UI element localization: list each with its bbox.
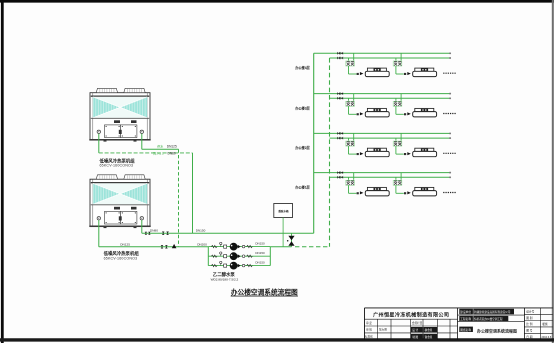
branch 3 FCU 2 strainer <box>404 153 406 155</box>
branch 1 supply pipe <box>314 52 450 54</box>
branch 3 fan coil unit 1 body <box>367 148 386 151</box>
chiller AC-1 base rail <box>89 139 150 141</box>
branch 2 return pipe <box>330 97 450 99</box>
return main check valve <box>172 244 177 248</box>
main butterfly valve on riser connection <box>288 236 294 240</box>
branch 3 FCU 1 connecting pipe <box>348 146 350 154</box>
branch 2 FCU 1 supply drop pipe <box>353 94 355 101</box>
branch 2 fan coil unit 1 body <box>367 108 386 111</box>
svg-text:DN80: DN80 <box>150 229 158 233</box>
svg-text:暖施: 暖施 <box>542 322 548 326</box>
chiller AC-2 water ports <box>97 217 100 220</box>
svg-text:65KCV-160CONO3: 65KCV-160CONO3 <box>100 164 134 168</box>
svg-text:DN150: DN150 <box>255 241 265 245</box>
svg-text:柳金星: 柳金星 <box>425 328 433 332</box>
svg-text:制 图: 制 图 <box>412 335 418 339</box>
chiller AC-2 condenser coil section <box>91 182 149 184</box>
svg-text:广州恒星冷冻机械制造有限公司: 广州恒星冷冻机械制造有限公司 <box>373 312 449 319</box>
svg-text:办公楼空调系统流程图: 办公楼空调系统流程图 <box>231 288 298 297</box>
branch 4 supply valves <box>337 171 340 174</box>
branch 1 FCU 1 supply drop pipe <box>353 53 355 60</box>
pump P1 discharge gauge <box>242 245 245 248</box>
svg-text:DN150: DN150 <box>196 229 206 233</box>
branch 3 FCU 2 check valve <box>407 152 411 155</box>
branch 2 FCU 2 check valve <box>407 112 411 115</box>
svg-text:DN200: DN200 <box>197 243 207 247</box>
branch 1 return valves <box>337 57 340 60</box>
chiller AC-1 door handle <box>119 130 122 134</box>
branch 1 FCU 1 check valve <box>360 72 364 75</box>
pump P1 flexible connector (discharge) <box>247 245 253 247</box>
pump P3 flexible connector (suction) <box>211 264 217 266</box>
branch 3 return pipe <box>330 137 450 139</box>
glycol pump P1 branch pipe <box>208 246 270 248</box>
pump P1 discharge triangle <box>238 245 241 249</box>
branch 4 FCU 2 supply drop pipe <box>400 173 402 180</box>
supply main valves <box>145 232 147 235</box>
svg-text:设 计: 设 计 <box>412 328 418 332</box>
pump P2 flexible connector (discharge) <box>247 255 253 257</box>
branch 3 FCU 2 connecting pipe <box>395 146 397 154</box>
branch 4 FCU 1 shut-off valve pair <box>346 180 355 185</box>
branch 2 FCU 1 strainer <box>357 113 359 115</box>
branch 1 FCU 2 shut-off valve pair <box>393 61 402 66</box>
pump P3 suction valve <box>224 264 227 267</box>
return main valves <box>161 245 164 248</box>
svg-text:DN80: DN80 <box>168 152 176 156</box>
title block company row <box>365 318 458 320</box>
svg-text:办公楼4层: 办公楼4层 <box>295 65 310 70</box>
branch 1 supply valves <box>337 52 340 55</box>
pump P1 flexible connector (suction) <box>211 245 217 247</box>
svg-text:WD2.80/180-7.5/2.2: WD2.80/180-7.5/2.2 <box>211 277 239 281</box>
svg-text:回_N1 2: 回_N1 2 <box>153 152 164 156</box>
branch 1 FCU 1 shut-off valve pair <box>346 61 355 66</box>
chiller AC-1 condenser coil section <box>91 95 149 97</box>
chiller 1 return riser (dashed) <box>178 149 180 247</box>
branch 3 continuation dots <box>443 152 456 154</box>
svg-text:恒星花苑办公楼空调工程: 恒星花苑办公楼空调工程 <box>474 317 503 321</box>
branch 1 fan coil unit 2 body <box>415 68 434 71</box>
branch 2 continuation dots <box>443 113 456 115</box>
pump discharge line to main <box>270 246 291 248</box>
branch 1 FCU 1 strainer <box>357 73 359 75</box>
pump P3 <box>230 262 238 270</box>
branch 2 fan coil unit 2 body <box>415 108 434 111</box>
svg-text:标准化: 标准化 <box>365 335 373 339</box>
chiller unit AC-1 outer box <box>90 93 150 140</box>
branch 4 supply pipe <box>314 172 450 174</box>
branch 4 FCU 2 strainer <box>404 192 406 194</box>
branch 4 FCU 1 supply drop pipe <box>353 173 355 180</box>
branch 2 pipe end caps <box>449 93 451 95</box>
chiller 2 right port pipe down <box>141 220 143 233</box>
chiller AC-2 lifting lugs <box>114 207 120 210</box>
branch 2 FCU 1 shut-off valve pair <box>346 101 355 106</box>
pump P3 discharge gauge <box>242 264 245 267</box>
return main dashed segment to riser <box>295 246 330 248</box>
branch 1 FCU 2 return drop pipe <box>395 58 397 61</box>
chiller AC-2 base rail <box>89 226 150 228</box>
branch 3 return valves <box>337 137 340 140</box>
branch 4 fan coil unit 2 body <box>415 187 434 190</box>
chiller 1 lower header horizontal <box>99 152 193 154</box>
svg-text:会签栏目: 会签栏目 <box>412 321 423 325</box>
branch 3 supply valves <box>337 132 340 135</box>
supply riser <box>313 53 315 233</box>
branch 1 return pipe <box>330 57 450 59</box>
svg-text:DN150: DN150 <box>255 251 265 255</box>
glycol pump P2 branch pipe <box>208 255 270 257</box>
branch 4 FCU 2 return drop pipe <box>395 177 397 180</box>
pump P1 <box>230 243 238 251</box>
pump suction header <box>207 247 209 266</box>
svg-text:DN125: DN125 <box>167 145 177 149</box>
expansion tank <box>274 204 293 218</box>
svg-text:图纸名称: 图纸名称 <box>460 328 471 332</box>
svg-text:设计号: 设计号 <box>526 310 534 314</box>
return riser (dashed) <box>329 58 331 247</box>
branch 2 supply valves <box>337 92 340 95</box>
branch 1 pipe end caps <box>449 52 451 54</box>
chiller 1 right port pipe down <box>141 134 143 150</box>
chiller unit AC-2 outer box <box>90 179 150 226</box>
expansion tank drop pipe <box>282 218 284 247</box>
return main into pump header <box>99 246 209 248</box>
title block left grid <box>365 325 458 327</box>
branch 1 FCU 2 connecting pipe <box>395 66 397 74</box>
chiller 1 left port pipe down <box>98 134 100 153</box>
svg-text:比 例: 比 例 <box>526 322 532 326</box>
chiller 1 supply drop to main <box>192 153 194 233</box>
branch 3 FCU 2 return drop pipe <box>395 138 397 141</box>
chiller 1 supply header horizontal <box>142 148 179 150</box>
pump discharge header <box>269 247 271 266</box>
svg-text:谢金星: 谢金星 <box>425 335 433 339</box>
title block right column <box>540 308 542 340</box>
branch 2 FCU 2 return drop pipe <box>395 98 397 101</box>
supply main to riser <box>142 232 314 234</box>
branch 3 FCU 1 strainer <box>357 153 359 155</box>
pump P2 discharge triangle <box>238 254 241 258</box>
branch 3 pipe end caps <box>449 132 451 134</box>
pump P2 <box>230 252 238 260</box>
svg-text:65KCV-160CONO3: 65KCV-160CONO3 <box>104 256 138 260</box>
branch 4 return valves <box>337 176 340 179</box>
branch 1 FCU 1 connecting pipe <box>348 66 350 74</box>
svg-text:日 期: 日 期 <box>526 335 532 339</box>
glycol pump P3 branch pipe <box>208 265 270 267</box>
branch 4 FCU 1 connecting pipe <box>348 185 350 193</box>
branch 4 FCU 1 return drop pipe <box>348 177 350 180</box>
branch 1 fan coil unit 1 body <box>367 68 386 71</box>
branch 2 FCU 2 strainer <box>404 113 406 115</box>
branch 3 FCU 1 shut-off valve pair <box>346 141 355 146</box>
pump P1 pressure gauge <box>220 244 222 246</box>
svg-text:建设单位: 建设单位 <box>460 310 471 314</box>
pump P2 flexible connector (suction) <box>211 255 217 257</box>
chiller AC-2 fan cowl left <box>96 175 117 179</box>
chiller AC-2 access doors <box>105 211 121 224</box>
branch 4 FCU 2 connecting pipe <box>395 185 397 193</box>
pump P2 pressure gauge <box>220 254 222 256</box>
pump P3 flexible connector (discharge) <box>247 264 253 266</box>
branch 2 return valves <box>337 97 340 100</box>
chiller AC-1 water ports <box>97 130 100 133</box>
branch 4 continuation dots <box>443 192 456 194</box>
pump P2 suction valve <box>224 255 227 258</box>
chiller AC-1 fan cowl left <box>96 88 117 92</box>
branch 2 FCU 1 connecting pipe <box>348 106 350 114</box>
pump P3 pressure gauge <box>220 263 222 265</box>
branch 3 FCU 1 supply drop pipe <box>353 133 355 140</box>
chiller AC-1 lifting lugs <box>114 120 120 123</box>
branch 1 FCU 1 return drop pipe <box>348 58 350 61</box>
branch 4 FCU 2 shut-off valve pair <box>393 180 402 185</box>
chiller AC-1 access doors <box>105 125 121 138</box>
drawing frame border <box>0 0 554 3</box>
svg-text:2004.6.8: 2004.6.8 <box>542 336 552 339</box>
branch 4 FCU 1 check valve <box>360 191 364 194</box>
branch 4 fan coil unit 1 body <box>367 187 386 190</box>
svg-text:供水: 供水 <box>157 144 163 149</box>
svg-text:工程名称: 工程名称 <box>460 317 471 321</box>
chiller AC-2 door handle <box>119 216 122 220</box>
pump P1 suction valve <box>224 245 227 248</box>
svg-text:办公楼空调系统流程图: 办公楼空调系统流程图 <box>476 329 517 334</box>
svg-text:办公楼3层: 办公楼3层 <box>295 105 310 110</box>
title block outline <box>365 307 553 309</box>
branch 3 FCU 2 supply drop pipe <box>400 133 402 140</box>
branch 2 FCU 1 check valve <box>360 112 364 115</box>
branch 4 FCU 1 strainer <box>357 192 359 194</box>
branch 1 FCU 2 check valve <box>407 72 411 75</box>
pump P2 discharge gauge <box>242 255 245 258</box>
branch 3 supply pipe <box>314 132 450 134</box>
branch 1 FCU 2 strainer <box>404 73 406 75</box>
svg-text:办公楼1层: 办公楼1层 <box>295 184 310 189</box>
branch 4 pipe end caps <box>449 172 451 174</box>
branch 2 FCU 1 return drop pipe <box>348 98 350 101</box>
svg-text:DN150: DN150 <box>255 260 265 264</box>
svg-text:DN125: DN125 <box>120 242 130 246</box>
branch 2 FCU 2 connecting pipe <box>395 106 397 114</box>
title block middle rows <box>459 309 473 315</box>
svg-text:膨胀水箱: 膨胀水箱 <box>278 209 290 213</box>
branch 2 FCU 2 supply drop pipe <box>400 94 402 101</box>
svg-text:张大明: 张大明 <box>379 328 387 332</box>
branch 2 supply pipe <box>314 93 450 95</box>
svg-text:办公楼2层: 办公楼2层 <box>295 145 310 150</box>
svg-text:审 核: 审 核 <box>366 328 372 332</box>
branch 1 FCU 2 supply drop pipe <box>400 53 402 60</box>
branch 1 continuation dots <box>443 72 456 74</box>
svg-text:图 别: 图 别 <box>526 316 532 320</box>
branch 3 FCU 2 shut-off valve pair <box>393 141 402 146</box>
branch 3 fan coil unit 2 body <box>415 148 434 151</box>
svg-text:审 定: 审 定 <box>366 321 372 325</box>
branch 4 return pipe <box>330 176 450 178</box>
branch 2 FCU 2 shut-off valve pair <box>393 101 402 106</box>
branch 3 FCU 1 return drop pipe <box>348 138 350 141</box>
svg-text:新疆建星建设兵团有限责任公司: 新疆建星建设兵团有限责任公司 <box>474 310 511 314</box>
svg-text:图 号: 图 号 <box>526 328 532 332</box>
branch 3 FCU 1 check valve <box>360 152 364 155</box>
pump P3 discharge triangle <box>238 264 241 268</box>
chiller 2 left port pipe down <box>98 220 100 247</box>
branch 4 FCU 2 check valve <box>407 191 411 194</box>
riser connection pipe <box>291 233 293 247</box>
